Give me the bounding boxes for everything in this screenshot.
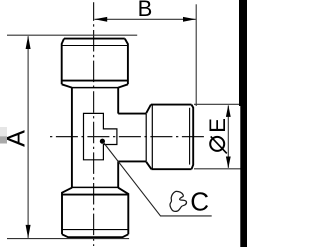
dimension A bottom arrowhead [26, 225, 31, 238]
bottom port hex shoulder line [62, 194, 128, 196]
svg-text:C: C [190, 186, 209, 216]
top port hex shoulder line [62, 80, 128, 82]
black border bar lower [240, 106, 247, 247]
wrench icon [170, 191, 186, 211]
wrench-flat outline on body [84, 113, 117, 159]
vertical centerline of tee body [93, 2, 95, 246]
bottom port cone-neck edge [72, 186, 118, 188]
side branch neck top edge [118, 113, 146, 115]
dimension B right arrowhead [183, 17, 196, 22]
horizontal centerline of side port [50, 136, 204, 138]
top port end face [64, 38, 125, 40]
dimension E line [227, 106, 229, 168]
top port left cone silhouette [62, 84, 72, 87]
top port left chamfer and left edge [62, 39, 64, 85]
dimension A top arrowhead [26, 36, 31, 49]
diameter symbol slash of label E [211, 136, 227, 153]
bottom port chamfer circle line [62, 229, 128, 231]
leader dot on wrench flat [100, 139, 105, 144]
dimension A bottom extension line [7, 238, 129, 240]
dimension E bottom arrowhead [226, 157, 231, 169]
top port right chamfer and right edge [125, 39, 128, 85]
side branch bottom cone silhouette [146, 162, 151, 169]
bottom port right cone silhouette and right edge [118, 188, 128, 235]
side branch top cone silhouette [146, 105, 151, 114]
dimension B line [94, 18, 195, 20]
leader line to label C [104, 143, 212, 216]
top port chamfer circle line [62, 45, 128, 47]
cropped gray artifact light part [0, 127, 7, 136]
svg-text:E: E [205, 118, 230, 133]
bottom port end face with chamfers [62, 234, 128, 237]
top port cone-neck edge [72, 87, 118, 89]
side port top edge [151, 104, 192, 106]
side port hex shoulder line [151, 105, 153, 169]
body neck right edge lower [117, 161, 119, 188]
dimension B extension line [195, 4, 197, 106]
side branch cone-neck edge [145, 114, 147, 162]
side port end face with chamfers [192, 105, 194, 170]
dimension E bottom extension line [194, 168, 247, 170]
dimension E top extension line [194, 103, 239, 105]
dimension E top arrowhead [226, 105, 231, 117]
svg-text:B: B [138, 0, 153, 21]
side branch neck bottom edge [118, 160, 146, 162]
dimension A line [27, 36, 29, 238]
side port bottom edge [151, 168, 191, 170]
bottom port left cone silhouette and left edge [62, 188, 72, 235]
body neck right edge upper [117, 88, 119, 114]
dimension A top extension line [7, 34, 137, 36]
black border bar upper [239, 0, 247, 106]
diameter symbol circle of label E [210, 137, 224, 151]
dimension B left arrowhead [94, 17, 107, 22]
top port right cone silhouette [118, 84, 128, 87]
cropped gray artifact dark part [0, 136, 7, 143]
body neck left edge [71, 88, 73, 189]
side port chamfer circle line [189, 108, 191, 165]
